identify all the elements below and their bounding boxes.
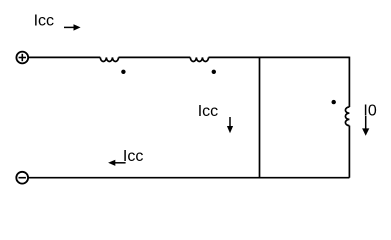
svg-text:Icc: Icc [123,148,143,165]
terminal + (positive input) [16,52,28,64]
arrow right (Icc direction) [64,24,81,30]
svg-text:Icc: Icc [34,13,54,30]
dot L1 polarity [121,70,125,74]
inductor L1 (primary winding) [100,57,118,61]
dot L3 polarity [332,100,336,104]
wire top left [28,56,100,58]
wire bottom [28,177,349,179]
inductor L2 (second winding) [190,57,208,61]
svg-text:Icc: Icc [198,103,218,120]
wire top right [209,56,350,58]
wire right vertical bottom [348,126,350,178]
wire top middle [119,56,191,58]
arrow down (I0) [362,116,369,136]
arrow left (return Icc) [108,160,126,166]
dot L2 polarity [212,70,216,74]
terminal - (negative input) [16,172,28,184]
wire right vertical top [348,57,350,107]
inductor L3 (output winding) [345,107,349,126]
arrow down (middle Icc) [227,117,233,133]
wire middle vertical [259,57,261,177]
